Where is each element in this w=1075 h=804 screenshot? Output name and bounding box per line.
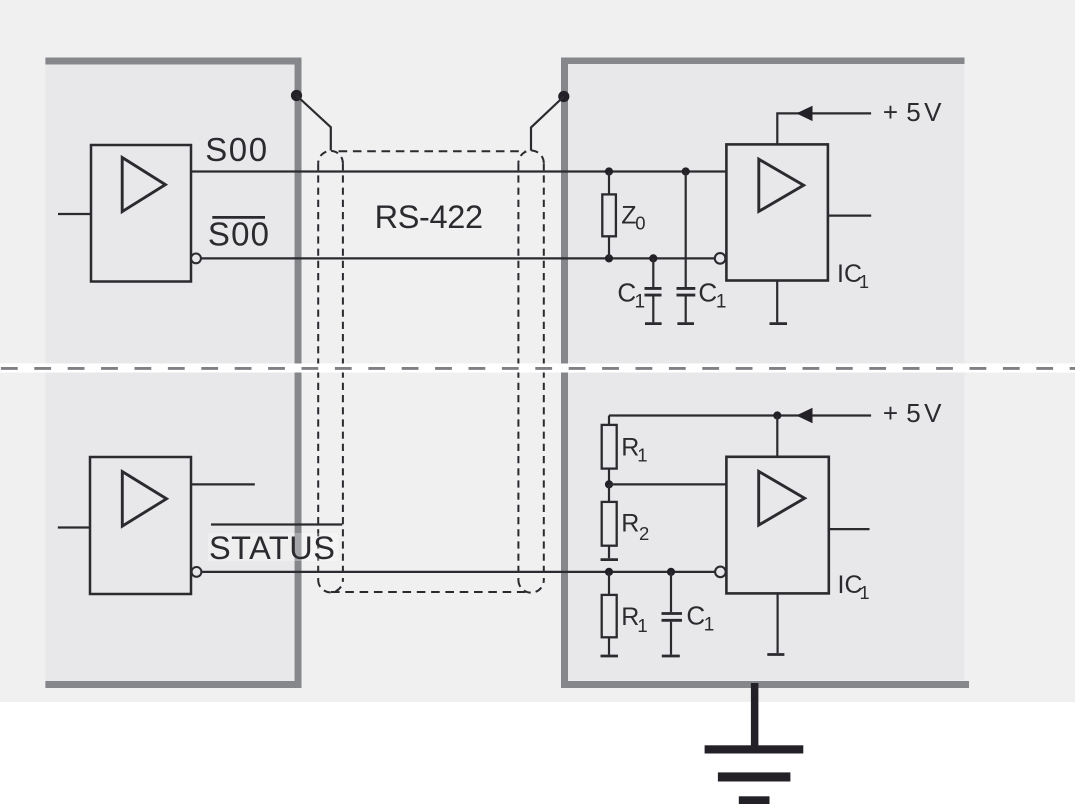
wire divider to receiver input [609,483,726,485]
+5V supply wire (bottom) [609,414,871,416]
resistor R2 terminal bar [601,558,619,561]
right device enclosure border [561,58,969,689]
ground bar 1 [705,745,804,753]
driver 2 input wire [58,526,90,528]
svg-text:1: 1 [860,583,870,603]
right device enclosure fill [565,58,965,681]
driver 2 upper output stub [191,483,255,485]
resistor Z0 [602,194,616,236]
separator white band [0,364,1075,373]
svg-text:+5V: +5V [883,398,942,428]
RS-422 cable label [375,199,483,235]
left device enclosure border [45,61,298,685]
resistor R2 wires [608,484,610,558]
svg-text:Z: Z [621,202,636,230]
cable shield right pair outer dashed wire [543,163,545,580]
truncated wire above STATUS [211,523,342,525]
line driver 1 triangle [122,158,165,212]
IC1 designator label (bottom) [838,571,870,603]
svg-text:STATUS: STATUS [209,530,335,566]
Z0 value label [621,202,645,234]
S00-bar overline [212,216,265,219]
receiver IC1 box (bottom) [726,457,828,594]
+5V arrowhead (top) [796,106,812,121]
cable shield right bottom cap [518,580,543,593]
driver 2 inverting bubble [192,567,202,577]
C1b value label [698,277,726,312]
svg-text:RS-422: RS-422 [375,199,483,235]
capacitor C1c wires [670,572,672,655]
+5V label (top) [883,97,942,127]
IC1 designator label (top) [837,260,869,292]
STATUS label [209,530,335,566]
cable shield top dashed link [339,150,525,152]
receiver IC1 ground pin (bottom) [776,593,778,653]
cable shield left pair outer dashed wire [342,163,344,580]
driver 1 inverting bubble [191,254,201,264]
wire S00 line [191,170,726,172]
resistor R1 (upper) wires [608,416,610,485]
receiver IC1 box (top) [726,144,828,280]
wire STATUS line [202,571,715,573]
resistor R1 (lower) [602,595,617,637]
resistor R2 [602,502,617,546]
receiver IC1 triangle (top) [759,159,804,211]
cable shield left pair inner dashed wire [317,163,319,580]
receiver IC1 output stub (bottom) [829,528,870,530]
cable shield left bottom cap [318,580,343,592]
capacitor C1a terminal bar [645,322,662,325]
S00 label [205,131,269,168]
line driver 1 box [91,145,191,282]
node junction +5V/IC supply [773,411,781,419]
capacitor C1a plates [645,288,662,295]
capacitor C1b plates [677,288,696,295]
resistor R1 lower terminal bar [601,655,619,658]
left device enclosure fill [46,58,295,682]
node junction S00/C1b [682,167,690,175]
receiver IC1 ground pin bar (top) [770,322,788,325]
node junction STATUS/C1c [667,568,675,576]
svg-text:1: 1 [716,292,727,313]
S00-bar label [208,216,270,253]
shield tap wire left [297,96,331,151]
receiver IC1 ground pin (top) [776,281,778,323]
+5V label (bottom) [883,398,942,428]
svg-text:1: 1 [704,615,715,636]
svg-text:1: 1 [859,272,869,292]
svg-text:C: C [698,277,717,307]
line driver 2 box [90,457,191,594]
cable shield bottom dashed link [331,591,531,593]
svg-text:1: 1 [635,292,646,313]
cable shield right pair inner dashed wire [517,163,519,580]
shield tap dot right [558,91,569,102]
R2 value label [621,510,649,545]
svg-text:1: 1 [637,445,647,466]
svg-text:0: 0 [635,213,645,234]
R1 lower value label [621,603,647,636]
capacitor C1b terminal bar [677,322,694,325]
wire S00-bar line [201,257,715,259]
+5V supply wire (top) [777,113,871,144]
bottom white area [0,702,1075,804]
svg-text:R: R [621,510,639,538]
svg-text:+5V: +5V [883,97,942,127]
node junction R1/R2 divider [605,480,613,488]
line driver 2 triangle [122,472,166,526]
svg-text:C: C [617,277,636,307]
resistor R1 (lower) wires [608,572,610,655]
capacitor C1c plates [662,614,683,621]
ground bar 3 [739,796,770,804]
node junction S00-bar/C1a [649,254,657,262]
receiver IC1 triangle (bottom) [759,471,805,525]
STATUS label background [208,533,338,561]
C1c value label [686,601,714,636]
cable shield left top cap [318,151,343,163]
resistor R1 (upper) [602,425,617,469]
shield tap dot left [291,90,302,101]
driver 1 input wire [58,213,91,215]
receiver IC1 ground pin bar (bottom) [767,653,784,656]
cable shield right top cap [518,151,543,164]
C1a value label [617,277,645,312]
svg-text:S00: S00 [208,216,270,253]
separator gray dashed line [0,367,1075,370]
node junction S00/Z0 [605,167,613,175]
capacitor C1b wires [685,172,687,323]
node junction STATUS/R1 [605,568,613,576]
resistor Z0 wires [608,172,610,259]
+5V arrowhead (bottom) [796,408,812,423]
ground bar 2 [718,772,791,781]
svg-text:S00: S00 [205,131,269,168]
receiver IC1 inverting bubble (top) [715,253,726,264]
capacitor C1c terminal bar [662,655,680,658]
shield tap wire right [531,97,564,151]
receiver IC1 output stub (top) [828,215,871,217]
node junction S00-bar/Z0 [605,254,613,262]
svg-text:2: 2 [639,523,649,544]
svg-text:1: 1 [637,615,647,636]
svg-text:C: C [686,601,705,631]
IC supply drop wire (bottom) [776,416,778,457]
R1 upper value label [621,434,647,466]
ground stem [751,683,759,750]
capacitor C1a wires [652,258,654,322]
receiver IC1 inverting bubble (bottom) [715,567,726,578]
